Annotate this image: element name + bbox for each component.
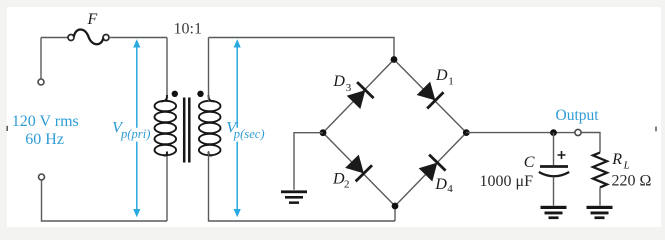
wire bridge bottom stub [394,206,396,221]
wire left vertical bottom [42,180,168,221]
transformer T1 secondary winding lead hooks [209,95,215,156]
transformer T1 primary winding [155,101,177,155]
stray margin tick left [6,126,8,131]
node top junction [391,56,398,63]
transformer polarity dot secondary [197,91,203,97]
diode D4 [417,155,445,183]
svg-text:F: F [87,11,98,28]
wire secondary top rail to bridge [209,38,395,57]
wire primary vertical top [166,38,168,103]
diode D2 [344,153,372,181]
capacitor plus sign [558,151,566,159]
capacitor C top plate [540,165,568,168]
node right junction [463,129,470,136]
svg-text:10:1: 10:1 [174,21,202,38]
svg-text:p(pri): p(pri) [120,127,150,141]
svg-text:220 Ω: 220 Ω [612,173,652,190]
diode D1 [415,80,443,108]
svg-text:D: D [332,73,345,90]
terminal output open circle [575,129,581,135]
svg-text:1000 μF: 1000 μF [480,173,534,190]
wire capacitor stub top [553,133,555,166]
svg-text:D: D [434,176,447,193]
wire top rail to fuse [41,37,68,39]
wire capacitor stub bottom [553,177,555,206]
fuse F element curve [74,30,103,45]
diode D3 [345,82,373,110]
resistor RL zigzag [593,153,607,188]
svg-text:Output: Output [556,107,600,124]
wire fuse to primary [109,37,167,39]
wire secondary vertical bottom [209,151,396,221]
ground at bridge left [281,190,307,204]
svg-text:L: L [623,160,630,172]
wire secondary vertical top [208,38,210,103]
svg-text:C: C [524,154,535,171]
svg-text:3: 3 [346,82,352,94]
arrow Vp(sec) [234,39,241,217]
svg-text:1: 1 [448,75,454,87]
arrow Vp(pri) [133,39,140,217]
transformer polarity dot primary [172,91,178,97]
node bottom junction [392,203,399,210]
fuse F right circle [103,35,109,41]
wire resistor stub bottom [599,187,601,205]
transformer T1 secondary winding [199,101,221,155]
node output junction [550,129,557,136]
wire bridge left stub [294,133,323,190]
capacitor C bottom curved plate [539,172,569,176]
svg-text:2: 2 [344,179,350,191]
wire output to load [581,133,600,153]
node left junction [320,129,327,136]
terminal lower open circle [39,174,45,180]
fuse F left circle [68,35,74,41]
ground at capacitor [541,206,567,219]
svg-text:60 Hz: 60 Hz [25,131,64,148]
transformer core [184,98,189,163]
wire bridge right to output [466,132,575,134]
svg-text:p(sec): p(sec) [233,127,265,141]
wire primary vertical bottom [166,151,168,221]
svg-text:120 V rms: 120 V rms [12,113,79,130]
transformer T1 primary winding lead hooks [161,95,167,156]
svg-text:D: D [435,67,448,84]
svg-text:4: 4 [447,183,453,195]
wire left vertical top (source to top rail) [40,38,42,79]
wire bridge diamond [323,60,466,207]
svg-text:R: R [611,151,622,168]
terminal upper open circle [38,79,44,85]
ground at load resistor [587,206,613,219]
stray margin tick right [655,127,657,132]
